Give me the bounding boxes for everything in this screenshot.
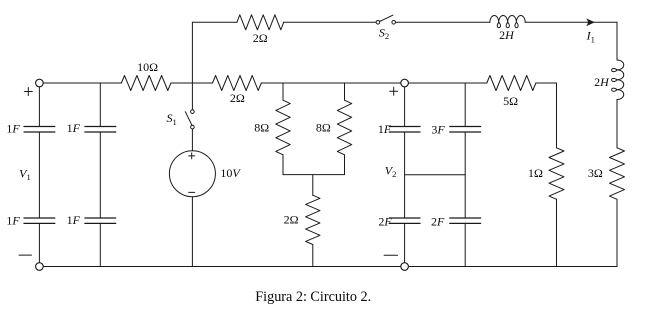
svg-text:5Ω: 5Ω bbox=[503, 94, 518, 108]
svg-text:1F: 1F bbox=[67, 121, 81, 135]
svg-text:Figura 2: Circuito 2.: Figura 2: Circuito 2. bbox=[255, 289, 371, 305]
svg-text:1F: 1F bbox=[6, 122, 20, 136]
svg-text:2Ω: 2Ω bbox=[253, 31, 268, 45]
svg-text:8Ω: 8Ω bbox=[254, 121, 269, 135]
svg-text:2H: 2H bbox=[499, 28, 515, 42]
svg-text:3F: 3F bbox=[431, 122, 445, 136]
svg-text:2Ω: 2Ω bbox=[230, 91, 245, 105]
svg-text:1F: 1F bbox=[67, 213, 81, 227]
svg-text:2H: 2H bbox=[594, 75, 610, 89]
svg-text:1F: 1F bbox=[6, 213, 20, 227]
svg-text:1F: 1F bbox=[378, 122, 392, 136]
svg-text:3Ω: 3Ω bbox=[588, 166, 603, 180]
svg-text:1Ω: 1Ω bbox=[528, 166, 543, 180]
svg-text:8Ω: 8Ω bbox=[316, 121, 331, 135]
svg-text:10V: 10V bbox=[220, 166, 241, 180]
svg-text:2F: 2F bbox=[378, 214, 392, 228]
svg-text:2Ω: 2Ω bbox=[284, 213, 299, 227]
svg-text:2F: 2F bbox=[431, 215, 445, 229]
svg-text:10Ω: 10Ω bbox=[137, 60, 158, 74]
